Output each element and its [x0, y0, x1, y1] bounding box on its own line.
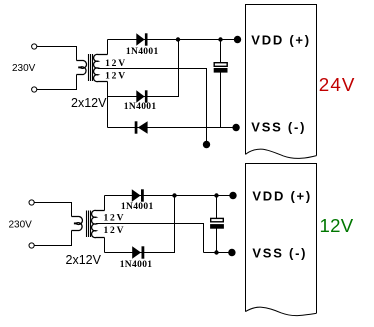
- node: junction on VSS rail (cap lead): [214, 250, 218, 254]
- diode D5 (points left): [135, 121, 148, 134]
- transformer T2 core: [87, 211, 91, 238]
- svg-text:12V: 12V: [104, 213, 126, 223]
- diode D3 1N4001: [132, 189, 144, 201]
- transformer T1 primary winding: [77, 61, 87, 75]
- wire: secondary bottom lead: [107, 82, 109, 128]
- node VSS terminal (bottom): [228, 249, 235, 256]
- wire: bottom rail (VSS): [108, 127, 237, 129]
- wire: secondary bottom lead to D4 row: [104, 238, 106, 253]
- wire: secondary top lead to top rail: [104, 196, 106, 211]
- wavy torn bottom of bottom box: [246, 307, 317, 315]
- capacitor C2: [210, 218, 224, 228]
- wire: secondary top lead to top rail: [107, 40, 109, 55]
- node: junction on top rail (D1 cathode / D2 riser): [176, 37, 180, 41]
- wire: center tap to VSS rail: [96, 224, 204, 253]
- svg-text:1N4001: 1N4001: [124, 102, 157, 112]
- svg-text:VSS (-): VSS (-): [252, 245, 307, 260]
- node: junction on top rail (cap lead): [218, 37, 222, 41]
- svg-text:12V: 12V: [320, 215, 354, 236]
- svg-text:12V: 12V: [104, 226, 126, 236]
- node VDD terminal (bottom): [229, 192, 236, 199]
- svg-text:VDD (+): VDD (+): [252, 188, 312, 203]
- node VSS terminal (top): [232, 124, 239, 131]
- wire: J1 to primary top: [37, 47, 77, 61]
- svg-text:230V: 230V: [12, 63, 36, 74]
- svg-text:230V: 230V: [9, 219, 33, 230]
- wire: capacitor C2 leads: [216, 196, 218, 253]
- wire: top rail (VDD bottom circuit): [105, 195, 234, 197]
- wire: center tap to node: [98, 69, 207, 145]
- svg-text:12V: 12V: [105, 71, 127, 81]
- wire: VSS rail (bottom): [204, 252, 232, 254]
- terminal J3 (230V top): [29, 200, 34, 205]
- svg-text:VSS (-): VSS (-): [251, 119, 306, 134]
- terminal J1 (230V top): [32, 44, 37, 49]
- wire: J4 to primary bottom: [34, 231, 71, 246]
- node: junction on bottom-circuit top rail (cap lead): [214, 193, 218, 197]
- diode D2 1N4001: [136, 90, 147, 102]
- terminal J4 (230V bottom): [29, 243, 34, 248]
- node: center-tap end terminal: [203, 141, 210, 148]
- transformer T1 core: [89, 54, 93, 81]
- wire: D4 row and riser to top rail: [105, 196, 175, 253]
- diode D1 1N4001: [136, 33, 147, 45]
- svg-text:1N4001: 1N4001: [126, 47, 159, 57]
- svg-text:2x12V: 2x12V: [71, 96, 107, 110]
- svg-text:12V: 12V: [105, 59, 127, 69]
- wire: D2 branch row: [108, 40, 179, 97]
- wire: J2 to primary bottom: [37, 75, 77, 90]
- transformer T1 secondary winding: [94, 54, 108, 81]
- svg-text:VDD (+): VDD (+): [251, 32, 311, 47]
- svg-text:1N4001: 1N4001: [120, 260, 153, 270]
- diode D4 1N4001: [132, 246, 144, 258]
- wire: top rail (VDD): [108, 39, 238, 41]
- terminal J2 (230V bottom): [32, 87, 37, 92]
- wire: capacitor leads: [220, 40, 222, 128]
- node: junction on bottom-circuit top rail (D3/D4 riser): [172, 193, 176, 197]
- box: top output block: [246, 5, 317, 159]
- transformer T2 primary winding: [72, 217, 83, 231]
- box: bottom output block: [246, 164, 317, 316]
- svg-text:1N4001: 1N4001: [121, 202, 154, 212]
- wavy torn bottom of top box: [246, 149, 317, 158]
- transformer T2 secondary winding: [92, 210, 105, 237]
- svg-text:24V: 24V: [319, 74, 356, 95]
- node VDD terminal (top): [234, 36, 241, 43]
- capacitor C1: [214, 63, 228, 73]
- wire: J3 to primary top: [34, 203, 71, 217]
- svg-text:2x12V: 2x12V: [66, 253, 102, 267]
